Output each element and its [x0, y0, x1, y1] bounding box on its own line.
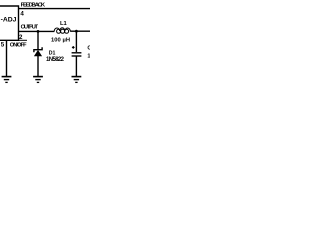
wire inductor to output edge	[70, 30, 90, 32]
pin label OUTPUT	[21, 24, 39, 30]
svg-text:L1: L1	[60, 21, 68, 27]
pin number 4	[20, 11, 24, 18]
value fragment (cut off at edge)	[87, 54, 93, 60]
regulator U1 LM2575-ADJ box	[0, 6, 19, 40]
inductor L1 coil	[54, 28, 70, 33]
wire diode anode to ground	[37, 56, 39, 76]
label D1	[49, 51, 56, 57]
svg-text:10: 10	[87, 54, 90, 60]
pin number 2	[19, 34, 23, 41]
svg-text:ON/OFF: ON/OFF	[10, 43, 27, 49]
node switch junction (diode tap)	[37, 30, 40, 33]
pin number 5	[1, 42, 5, 49]
svg-text:100 µH: 100 µH	[51, 37, 70, 43]
svg-text:FEEDBACK: FEEDBACK	[21, 2, 46, 8]
svg-text:4: 4	[20, 11, 24, 18]
wire output node to capacitor	[75, 31, 77, 52]
polarity + mark	[72, 46, 75, 49]
pin label FEEDBACK	[21, 2, 46, 8]
diode D1 1N5822 schottky (cathode bar with hooks)	[34, 47, 42, 56]
wire pin 5 to ground	[6, 40, 8, 76]
label C (cut off at edge)	[87, 45, 94, 51]
svg-text:OUTPUT: OUTPUT	[21, 24, 39, 30]
pin label ON/OFF with overline	[10, 40, 27, 48]
node output junction (cap tap)	[75, 30, 78, 33]
capacitor C1 plates	[72, 53, 82, 56]
ground (middle, diode)	[33, 77, 43, 83]
wire capacitor to ground	[75, 56, 77, 76]
svg-text:D1: D1	[49, 51, 56, 57]
svg-text:1N5822: 1N5822	[46, 57, 65, 63]
svg-text:-ADJ: -ADJ	[1, 17, 17, 24]
svg-text:5: 5	[1, 42, 5, 49]
ground (right, capacitor)	[72, 77, 82, 83]
svg-text:C1: C1	[87, 45, 90, 51]
value label -ADJ	[1, 17, 17, 24]
wire output net (pin 2 to inductor)	[19, 30, 55, 32]
label L1	[60, 21, 68, 27]
value 100 uH	[51, 37, 70, 43]
wire switch node to diode cathode	[37, 31, 39, 49]
ground (left, pin 5)	[2, 77, 12, 83]
wire feedback net	[19, 8, 91, 10]
value 1N5822	[46, 57, 65, 63]
